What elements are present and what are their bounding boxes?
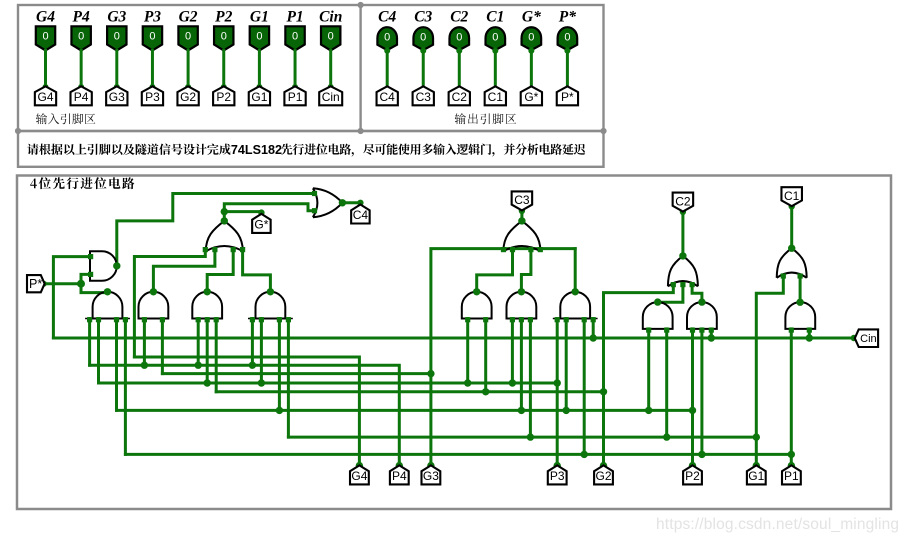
output pin G* — [522, 27, 542, 50]
junction at tunnel G4 — [43, 84, 49, 90]
wire from pin G1 to tunnel — [258, 50, 261, 86]
wire AND U7 output to OR U13 input2 — [477, 249, 513, 291]
tunnel P2 (top area) — [213, 86, 234, 105]
svg-text:G4: G4 — [37, 90, 53, 104]
junction P* tunnel point — [41, 281, 47, 287]
wire AND UB input2 to P1 bus — [700, 329, 703, 455]
junction P4 tunnel top — [396, 462, 403, 469]
svg-text:P*: P* — [561, 90, 574, 104]
tunnel P* (top area) — [557, 86, 578, 105]
wire AND U7 input2 to G2 bus — [484, 319, 487, 392]
svg-text:G3: G3 — [423, 469, 439, 483]
svg-text:C3: C3 — [514, 193, 530, 207]
tunnel G* (main) — [252, 214, 271, 233]
junction G2 bus / AND U7 — [482, 388, 489, 395]
svg-text:P3: P3 — [144, 9, 161, 26]
junction C4 link — [357, 200, 363, 206]
wire from pin P2 to tunnel — [222, 50, 225, 86]
or-gate U15 (C1 OR, 2-input) — [777, 248, 807, 278]
corner anchor dot divider top — [358, 2, 364, 8]
junction G* tunnel top — [258, 209, 264, 215]
junction C1 tunnel top — [789, 203, 795, 209]
and-gate UA (P2·G1) — [643, 302, 673, 333]
wire P2 bus — [117, 409, 693, 412]
wire from pin P* to tunnel — [566, 49, 569, 87]
tunnel P3 (bottom) — [548, 465, 567, 484]
svg-text:C2: C2 — [450, 9, 468, 26]
input pin G4 — [36, 26, 55, 50]
tunnel C2 (top area) — [449, 86, 470, 105]
tunnel P2 (bottom) — [683, 465, 702, 484]
svg-text:C2: C2 — [452, 90, 468, 104]
label input pin area 输入引脚区 — [36, 113, 95, 124]
tunnel G4 (top area) — [35, 86, 56, 105]
wire OR U11 input1 from G4 bus — [134, 249, 205, 357]
wire G3 bus — [162, 372, 431, 375]
banner text part 2 — [281, 144, 585, 157]
wire AND U4 input1 to P4 bus — [143, 319, 146, 366]
output pin C1 — [486, 27, 506, 50]
wire P4 bus — [90, 365, 400, 465]
output pin C2 — [449, 27, 469, 50]
wire from pin C2 to tunnel — [458, 49, 461, 87]
junction AND U3 output — [104, 288, 111, 295]
junction P2 bus end — [689, 407, 696, 414]
wire OR U12 output to C4 tunnel — [342, 203, 360, 205]
wire AND U8 output to OR U13 input3 — [521, 249, 531, 291]
wire AND U9 input1 / P3 riser — [556, 319, 559, 466]
wire OR U11 output to OR U12 input B — [224, 204, 313, 221]
junction at tunnel G3 — [114, 84, 120, 90]
svg-text:G4: G4 — [36, 9, 55, 26]
junction AND U6 output — [267, 288, 274, 295]
wire junction down to AND U1 output (P* net) — [81, 284, 108, 293]
tunnel P1 (top area) — [284, 86, 305, 105]
svg-text:0: 0 — [114, 31, 120, 43]
wire AND U3 input3 to P2 bus — [115, 319, 118, 411]
svg-text:P1: P1 — [288, 90, 303, 104]
output pin C3 — [413, 27, 433, 50]
junction P2 tunnel top — [689, 462, 696, 469]
junction AND U2 output — [113, 262, 120, 269]
svg-text:G2: G2 — [595, 469, 611, 483]
input pin G2 — [178, 26, 197, 50]
wire G2 bus — [216, 390, 603, 393]
wire AND U2 output to OR U12 input A — [117, 194, 313, 266]
wire AND U6 input1 to P4 bus — [251, 319, 254, 366]
svg-text:https://blog.csdn.net/soul_min: https://blog.csdn.net/soul_mingling — [656, 516, 899, 533]
tunnel G3 (top area) — [106, 86, 127, 105]
wire OR U11 input3 from AND U5 output — [207, 249, 233, 291]
input pin Cin — [321, 26, 340, 50]
wire AND UC output to OR U15 input2 — [799, 276, 802, 302]
wire AND U8 input3 to G1 bus — [529, 319, 532, 438]
junction P1 bus / AND U9 — [581, 451, 588, 458]
junction below pin G* — [528, 48, 534, 54]
junction P2 bus / AND U6 — [276, 407, 283, 414]
input/output pin area outer box — [18, 5, 604, 131]
wire junction up to AND U2 input B — [81, 274, 90, 283]
junction AND U5 output — [204, 288, 211, 295]
junction at tunnel Cin — [328, 84, 334, 90]
wire AND U9 output to OR U13 input4 — [574, 249, 577, 292]
tunnel G1 (top area) — [249, 86, 270, 105]
svg-text:0: 0 — [492, 31, 498, 43]
tunnel C4 (top area) — [377, 86, 398, 105]
banner box — [18, 131, 604, 167]
svg-text:0: 0 — [42, 31, 48, 43]
wire from pin G2 to tunnel — [187, 50, 190, 86]
junction P4 bus / AND U4 — [141, 362, 148, 369]
junction at tunnel P4 — [78, 84, 84, 90]
wire AND U5 input3 to G2 bus — [215, 319, 218, 392]
junction at tunnel P1 — [292, 84, 298, 90]
tunnel C1 (main) — [781, 187, 802, 206]
wire AND UB input1 / P2 riser — [691, 329, 694, 466]
wire AND UB input3 to Cin bus — [710, 329, 713, 338]
main circuit box — [17, 176, 891, 510]
junction Cin bus / AND UB — [708, 334, 715, 341]
junction P4 bus / AND U5 — [195, 362, 202, 369]
junction G1 bus tee — [753, 433, 760, 440]
tunnel P* (main) — [27, 275, 45, 292]
svg-text:G*: G* — [254, 217, 268, 231]
junction Cin bus / AND UC — [806, 334, 813, 341]
wire G2 riser to OR U14 input1 — [604, 285, 674, 466]
wire AND U3 input2 to P3 bus — [97, 319, 100, 383]
svg-text:0: 0 — [328, 31, 334, 43]
tunnel C3 (top area) — [413, 86, 434, 105]
svg-text:C4: C4 — [353, 208, 369, 222]
svg-text:P*: P* — [29, 277, 42, 291]
junction C2 tunnel top — [680, 209, 686, 215]
tunnel G3 (bottom) — [422, 465, 441, 484]
junction at tunnel G1 — [256, 84, 262, 90]
junction AND U8 output — [518, 288, 525, 295]
input pin P3 — [143, 26, 162, 50]
junction G1 tunnel top — [753, 462, 760, 469]
svg-text:0: 0 — [456, 31, 462, 43]
divider between input and output pin areas — [359, 5, 361, 131]
wire AND U6 input2 to P3 bus — [260, 319, 263, 383]
svg-text:G1: G1 — [251, 90, 267, 104]
wire G3 riser to OR U13 inputs line — [431, 249, 575, 466]
junction AND U4 output — [150, 288, 157, 295]
and-gate U9 (P3·P2·P1·Cin) — [553, 292, 598, 322]
wire OR U14 output to C2 tunnel — [681, 212, 684, 256]
svg-text:G3: G3 — [107, 9, 126, 26]
svg-text:C1: C1 — [486, 9, 504, 26]
wire G1 bus — [288, 436, 756, 439]
junction G3 tunnel top — [427, 462, 434, 469]
wire AND U5 input1 to P4 bus — [197, 319, 200, 366]
junction below pin C3 — [420, 48, 426, 54]
banner text part 1 — [27, 144, 230, 155]
wire from pin P4 to tunnel — [80, 50, 83, 86]
svg-text:P1: P1 — [286, 9, 303, 26]
and-gate U3 (P4·P3·P2·P1) — [85, 292, 130, 322]
corner anchor dot middle — [358, 128, 364, 134]
main circuit title 4位先行进位电路 — [30, 177, 134, 189]
svg-text:Cin: Cin — [860, 333, 877, 345]
junction P4 bus / AND U6 — [249, 362, 256, 369]
svg-text:P3: P3 — [550, 469, 565, 483]
wire AND U3 input4 to P1 bus — [124, 319, 127, 455]
wire AND UC input1 / P1 riser — [790, 329, 793, 466]
junction G1 bus / AND UA — [663, 433, 670, 440]
svg-text:Cin: Cin — [319, 9, 342, 26]
junction P* net — [77, 280, 85, 288]
wire from pin G3 to tunnel — [115, 50, 118, 86]
junction G4 tunnel top — [356, 462, 363, 469]
junction P1 bus tee — [788, 451, 795, 458]
wire G1 riser to OR U15 input1 — [756, 276, 783, 466]
svg-text:C4: C4 — [378, 9, 396, 26]
junction below pin P* — [564, 48, 570, 54]
junction OR U11 output — [221, 217, 228, 224]
tunnel C2 (main) — [673, 193, 694, 212]
wire from pin G4 to tunnel — [44, 50, 47, 86]
wire AND U6 input4 to G1 bus — [287, 319, 290, 438]
wire AND U8 input2 to P2 bus — [520, 319, 523, 411]
junction G* tee — [221, 208, 228, 215]
junction P1 tunnel top — [788, 462, 795, 469]
svg-text:C1: C1 — [488, 90, 504, 104]
junction P3 bus / AND U5 — [204, 379, 211, 386]
tunnel P4 (top area) — [71, 86, 92, 105]
svg-text:P2: P2 — [216, 90, 231, 104]
junction C3 tunnel top — [519, 208, 525, 214]
wire AND UA input1 to P2 bus — [647, 329, 650, 411]
svg-text:G2: G2 — [180, 90, 196, 104]
svg-text:P4: P4 — [73, 9, 90, 26]
junction P2 bus / AND U8 — [518, 407, 525, 414]
svg-text:P4: P4 — [392, 469, 407, 483]
svg-text:C3: C3 — [414, 9, 432, 26]
wire AND U9 input4 to Cin bus — [592, 319, 595, 338]
input pin P2 — [214, 26, 233, 50]
tunnel Cin (main) — [855, 329, 878, 347]
input pin G1 — [250, 26, 269, 50]
and-gate U5 (P4·P3·G2) — [192, 292, 222, 323]
junction AND UA output — [654, 298, 661, 305]
corner anchor dot right — [600, 128, 606, 134]
svg-text:C1: C1 — [784, 189, 800, 203]
svg-text:P*: P* — [559, 9, 576, 26]
wire AND UA output to OR U14 input2 — [658, 285, 683, 303]
tunnel P4 (bottom) — [390, 465, 409, 484]
junction below pin C2 — [456, 48, 462, 54]
tunnel C1 (top area) — [485, 86, 506, 105]
and-gate UC (P1·Cin) — [785, 302, 815, 333]
wire from pin C1 to tunnel — [494, 49, 497, 87]
wire P* tunnel to junction — [44, 282, 81, 285]
svg-text:C3: C3 — [416, 90, 432, 104]
wire AND U9 input2 to P2 bus — [565, 319, 568, 411]
svg-text:G1: G1 — [250, 9, 269, 26]
junction P3 bus / AND U7 — [464, 379, 471, 386]
junction AND UC output — [796, 299, 803, 306]
and-gate UB (P2·P1·Cin) — [687, 302, 717, 333]
wire AND U4 input2 to G3 bus — [161, 319, 164, 374]
and-gate U8 (P3·P2·G1) — [507, 292, 537, 323]
wire from pin C3 to tunnel — [422, 49, 425, 87]
junction OR U12 output — [339, 199, 346, 206]
junction at tunnel P3 — [149, 84, 155, 90]
tunnel G2 (bottom) — [594, 465, 613, 484]
junction AND U7 output — [473, 288, 480, 295]
or-gate U14 (C2 OR, 3-input) — [668, 256, 698, 287]
svg-text:74LS182: 74LS182 — [231, 143, 282, 157]
svg-text:P3: P3 — [145, 90, 160, 104]
svg-text:G4: G4 — [351, 469, 367, 483]
junction at tunnel G2 — [185, 84, 191, 90]
or-gate U13 (C3 OR, 4-input) — [501, 221, 543, 252]
svg-text:G*: G* — [522, 9, 541, 26]
and-gate U4 (P4·G3) — [139, 292, 169, 323]
junction P3 bus / AND U6 — [258, 379, 265, 386]
junction Cin tunnel — [851, 335, 857, 341]
svg-text:P1: P1 — [784, 469, 799, 483]
wire OR U13 output to C3 tunnel — [520, 210, 523, 221]
svg-text:Cin: Cin — [322, 90, 340, 104]
output pin C4 — [377, 27, 397, 50]
svg-text:0: 0 — [420, 31, 426, 43]
svg-text:C4: C4 — [380, 90, 396, 104]
tunnel C3 (main) — [512, 191, 533, 210]
and-gate U2 (Cin AND P*) right-facing — [88, 251, 117, 281]
junction P3 tunnel top — [554, 462, 561, 469]
junction AND U9 output — [572, 288, 579, 295]
wire from pin P3 to tunnel — [151, 50, 154, 86]
svg-text:P2: P2 — [685, 469, 700, 483]
junction OR U13 output — [518, 217, 525, 224]
wire G* branch — [224, 212, 261, 214]
tunnel C4 (main) — [351, 205, 370, 224]
wire AND UA input2 to G1 bus — [665, 329, 668, 437]
tunnel G1 (bottom) — [747, 465, 766, 484]
tunnel G* (top area) — [521, 86, 542, 105]
wire OR U11 input2 from AND U4 output — [153, 249, 215, 291]
svg-text:C2: C2 — [675, 194, 691, 208]
svg-text:0: 0 — [78, 31, 84, 43]
svg-text:0: 0 — [221, 31, 227, 43]
tunnel P1 (bottom) — [782, 465, 801, 484]
input pin P4 — [71, 26, 90, 50]
junction Cin bus / AND U9 — [590, 334, 597, 341]
svg-text:0: 0 — [384, 31, 390, 43]
junction P1 bus / AND UB — [698, 451, 705, 458]
svg-text:G1: G1 — [748, 469, 764, 483]
output pin P* — [558, 27, 578, 50]
junction AND UB output — [698, 298, 705, 305]
junction OR U15 output — [788, 245, 795, 252]
junction P2 bus / AND UA — [645, 407, 652, 414]
wire AND UC input2 to Cin bus — [808, 329, 811, 338]
junction below pin C1 — [492, 48, 498, 54]
wire OR U15 output to C1 tunnel — [790, 206, 793, 248]
svg-text:0: 0 — [256, 31, 262, 43]
tunnel P3 (top area) — [142, 86, 163, 105]
junction at tunnel P2 — [221, 84, 227, 90]
svg-text:0: 0 — [528, 31, 534, 43]
junction G2 tunnel top — [600, 462, 607, 469]
svg-text:G3: G3 — [109, 90, 125, 104]
wire AND U7 input1 to P3 bus — [466, 319, 469, 383]
and-gate U6 (P4·P3·P2·G1) — [248, 292, 293, 323]
tunnel Cin (top area) — [319, 86, 342, 105]
svg-text:P2: P2 — [215, 9, 232, 26]
wire from pin G* to tunnel — [530, 49, 533, 87]
label output pin area 输出引脚区 — [455, 113, 516, 124]
wire from pin P1 to tunnel — [294, 50, 297, 86]
input pin P1 — [285, 26, 304, 50]
wire G4 bus — [134, 357, 359, 465]
wire AND UB output to OR U14 input3 — [692, 285, 702, 303]
svg-text:0: 0 — [185, 31, 191, 43]
input pin G3 — [107, 26, 126, 50]
wire AND U6 input3 to P2 bus — [278, 319, 281, 411]
tunnel G4 (bottom) — [350, 465, 369, 484]
junction OR U14 output — [679, 252, 686, 259]
wire AND U8 input1 to P3 bus — [511, 319, 514, 383]
wire AND U2 input A from Cin riser — [53, 257, 90, 338]
wire AND U9 input3 to P1 bus — [583, 319, 586, 455]
wire from pin C4 to tunnel — [386, 49, 389, 87]
and-gate U7 (P3·G2) — [462, 292, 492, 323]
svg-text:P4: P4 — [74, 90, 89, 104]
wire AND U3 input1 to P4 bus — [88, 319, 91, 366]
wire Cin bus — [53, 337, 853, 340]
wire P3 bus — [99, 382, 558, 385]
or-gate U12 (C4 OR) right-facing — [312, 188, 343, 217]
junction G3 bus tee — [427, 370, 434, 377]
wire AND U5 input2 to P3 bus — [206, 319, 209, 383]
junction G1 bus / AND U8 — [527, 433, 534, 440]
corner anchor dot left — [15, 128, 21, 134]
junction P3 bus tee — [554, 379, 561, 386]
junction P2 bus / AND U9 — [563, 407, 570, 414]
svg-text:0: 0 — [149, 31, 155, 43]
svg-text:G2: G2 — [179, 9, 198, 26]
tunnel G2 (top area) — [177, 86, 198, 105]
wire OR U11 input4 from AND U6 output — [243, 249, 271, 291]
wire from pin Cin to tunnel — [329, 50, 332, 86]
or-gate U11 (G* OR, 4-input) — [203, 221, 246, 252]
svg-text:0: 0 — [292, 31, 298, 43]
junction below pin C4 — [384, 48, 390, 54]
wire P1 bus — [125, 453, 791, 456]
junction G2 bus tee — [600, 388, 607, 395]
svg-text:G*: G* — [524, 90, 538, 104]
svg-text:0: 0 — [564, 31, 570, 43]
junction P3 bus / AND U8 — [509, 379, 516, 386]
